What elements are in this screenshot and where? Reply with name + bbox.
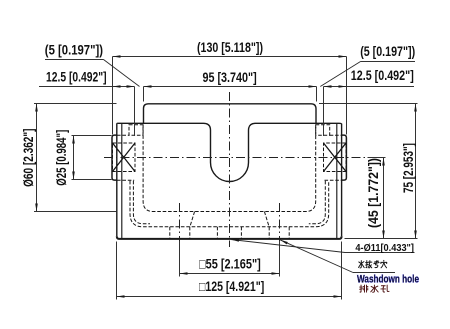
Ø25 dim line (73, 136, 75, 180)
hidden inner corner hook right (309, 181, 326, 224)
leader (5) right diagonal (320, 62, 360, 87)
bottom edge (thick) (117, 236, 342, 239)
□55 dim line (180, 273, 280, 275)
centerline vertical (229, 92, 231, 247)
svg-text:75 [2.953"]: 75 [2.953"] (401, 143, 416, 193)
hidden square left boss (113, 143, 136, 172)
text 水抜き穴 (vector kanji) (359, 260, 387, 268)
boss right (visible protruding Ø25 end) (342, 135, 347, 180)
hole centerline left (179, 203, 181, 246)
hidden boss bottom line right (325, 179, 342, 181)
45 dim line (383, 158, 385, 239)
svg-text:95 [3.740"]: 95 [3.740"] (203, 70, 257, 85)
arrow 45 bottom (382, 231, 385, 239)
X diagonals right boss (324, 143, 347, 172)
underline 4-Ø11 (345, 252, 414, 254)
hidden cavity lower floor (130, 181, 329, 227)
dim line 12.5 left row (39, 86, 135, 88)
centerline horizontal (104, 157, 366, 159)
underline (5) right (361, 61, 416, 63)
arrow 12.5R a (324, 85, 332, 88)
underline (5) left (45, 59, 104, 61)
arrow Ø25 top (72, 136, 75, 144)
arrowhead leader A (231, 238, 239, 242)
□125 dim line (117, 296, 342, 298)
hidden boss bottom line left (117, 179, 134, 181)
svg-text:(5 [0.197"]): (5 [0.197"]) (45, 43, 103, 58)
arrow 130 right (339, 55, 347, 58)
arrow Ø60 top (35, 104, 38, 112)
ext line 130 left (112, 57, 114, 135)
arrow 12.5L b (127, 85, 135, 88)
arrow 125 right (334, 295, 342, 298)
svg-text:Ø25 [0.984"]: Ø25 [0.984"] (54, 130, 69, 186)
corner edge line left (121, 124, 123, 238)
arrow Ø60 bottom (35, 204, 38, 212)
text 排水孔 (vector kanji, maroon) (360, 285, 389, 292)
arrow 95 left (144, 85, 152, 88)
arrow 75 bottom (414, 231, 417, 239)
hidden cavity upper wall+floor (143, 125, 316, 212)
hidden funnel right (264, 212, 269, 227)
Ø25 ext bottom (72, 179, 112, 181)
svg-text:12.5 [0.492"]: 12.5 [0.492"] (351, 68, 414, 83)
arrow 130 left (113, 55, 121, 58)
X diagonals left boss (113, 143, 347, 172)
arrowhead leader B (279, 239, 287, 245)
svg-text:(5 [0.197"]): (5 [0.197"]) (360, 44, 415, 59)
svg-text:Ø60 [2.362"]: Ø60 [2.362"] (21, 129, 36, 187)
□125 ext left (116, 242, 118, 300)
svg-text:□55 [2.165"]: □55 [2.165"] (199, 257, 261, 272)
75 ext top (319, 103, 418, 105)
arrow 75 top (414, 104, 417, 112)
underline washdown (353, 272, 395, 274)
ext line 12.5 right (323, 87, 325, 137)
75 dim line (415, 104, 417, 239)
arrow 55 right (272, 272, 280, 275)
leader (5) left diagonal (104, 60, 140, 87)
Ø25 ext top (72, 135, 112, 137)
svg-text:4-Ø11[0.433"]: 4-Ø11[0.433"] (355, 243, 414, 254)
arrow 45 top (382, 158, 385, 166)
hidden square right boss (324, 143, 347, 172)
hidden small rect left shoulder (129, 125, 143, 136)
75 ext bottom (345, 238, 418, 240)
dim line 130 (113, 56, 347, 58)
hidden inner corner hook left (133, 181, 150, 224)
ext line 12.5 left (134, 87, 136, 137)
arrow 55 left (180, 272, 188, 275)
dim line 12.5 right row (324, 86, 415, 88)
body outline with U notch (117, 123, 342, 236)
Ø60 ext top (34, 103, 116, 105)
hidden funnel left (190, 212, 195, 227)
leader washdown diagonal (280, 240, 353, 273)
dim line 95 (144, 86, 317, 88)
ext line 130 right (346, 57, 348, 135)
hole centerline right (279, 203, 281, 246)
45 ext top (368, 157, 386, 159)
svg-text:□125 [4.921"]: □125 [4.921"] (199, 279, 264, 294)
Ø60 dim line (36, 104, 38, 212)
raised back wall (95 plateau) (144, 104, 317, 124)
svg-text:(130 [5.118"]): (130 [5.118"]) (197, 40, 263, 55)
hidden boss top line right (330, 134, 342, 136)
□55 ext left (179, 241, 181, 277)
leader 4-Ø11 diagonal (231, 240, 345, 253)
hidden small rect right shoulder (316, 125, 330, 136)
arrow 12.5R b (339, 85, 347, 88)
Ø60 ext bottom (34, 211, 116, 213)
arrow 95 right (309, 85, 317, 88)
svg-text:(45 [1.772"]): (45 [1.772"]) (366, 158, 381, 228)
hole edge stubs (170, 227, 289, 239)
□125 ext right (341, 242, 343, 300)
corner edge line right (336, 124, 338, 238)
boss left (visible protruding Ø25 end) (112, 135, 117, 180)
ext line 95 right (316, 87, 318, 102)
arrow 125 left (117, 295, 125, 298)
svg-text:Washdown hole: Washdown hole (357, 273, 419, 285)
arrow 12.5L a (113, 85, 121, 88)
arrow Ø25 bottom (72, 172, 75, 180)
svg-text:12.5 [0.492"]: 12.5 [0.492"] (46, 70, 107, 85)
□55 ext right (279, 241, 281, 277)
ext line 95 left (143, 87, 145, 102)
hidden boss top line left (117, 134, 129, 136)
